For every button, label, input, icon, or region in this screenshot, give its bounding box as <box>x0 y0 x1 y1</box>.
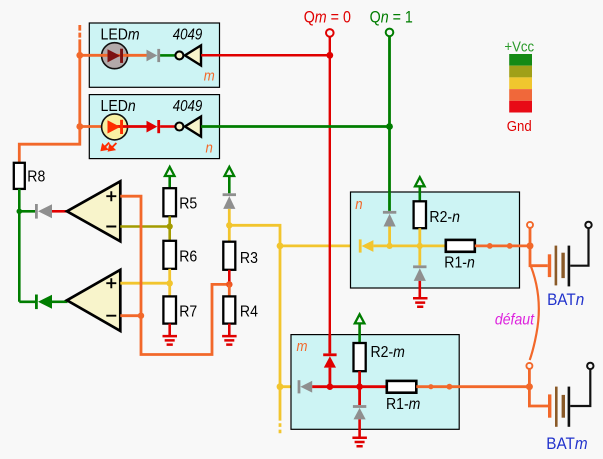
wire yellow op-amp U2 + input <box>120 282 169 285</box>
op-amp U2 <box>67 270 120 331</box>
diode D5 (red, row n) <box>147 120 161 133</box>
svg-text:BATn: BATn <box>547 290 584 309</box>
diode D9 (red, Qm to node m) <box>323 353 336 367</box>
node yellow junction trunk/m-row <box>277 383 284 390</box>
wire red D11 to ground <box>358 419 361 437</box>
node yellow junction trunk/n-row <box>277 243 284 250</box>
svg-text:R3: R3 <box>240 249 258 267</box>
inverter U3 4049 (row m) <box>175 45 201 65</box>
svg-text:R6: R6 <box>179 247 197 265</box>
wire orange LEDn row left <box>80 125 110 128</box>
wire yellow D6 to n row <box>388 227 391 246</box>
resistor R8 <box>14 163 45 189</box>
resistor R1-m <box>386 381 420 413</box>
wire red Qm into block m <box>328 334 331 353</box>
wire yellow D3 to R3 and trunk <box>229 209 280 246</box>
resistor R6 <box>163 241 197 269</box>
node orange junction battery m <box>526 383 533 390</box>
wire green diode to inverter m <box>160 54 175 57</box>
wire green Qn inside block n <box>388 192 391 211</box>
node orange junction battery n <box>527 242 534 249</box>
battery BATm <box>546 363 593 453</box>
wire olive R5-R6 <box>168 216 171 241</box>
ground under block n <box>413 298 428 307</box>
node junction orange <box>138 313 144 319</box>
box block m <box>291 335 459 430</box>
wire orange R4 top <box>228 284 231 296</box>
wire red D8 to ground <box>418 281 421 298</box>
box LED m (cell m indicator) <box>89 23 219 87</box>
op-amp U1 <box>67 181 120 241</box>
resistor R4 <box>223 296 258 323</box>
terminal open circle m <box>526 363 532 369</box>
wire yellow R6-R7 <box>168 269 171 297</box>
ground under R4 <box>222 336 237 345</box>
ground under block m <box>352 438 367 447</box>
wire défaut curve <box>530 267 539 361</box>
wire red R7 to ground <box>168 324 171 336</box>
diode D11 (gray, node m to ground) <box>353 405 366 419</box>
svg-text:n: n <box>355 195 362 212</box>
wire yellow node n row <box>373 244 445 247</box>
node yellow junction (D6) <box>387 243 393 249</box>
diode D3 (gray, above R3) <box>223 193 236 209</box>
svg-text:R1-n: R1-n <box>444 254 475 272</box>
node red junction (D9) <box>327 383 334 390</box>
svg-text:BATm: BATm <box>546 434 587 453</box>
wire yellow R2-n bottom <box>418 228 421 265</box>
svg-text:m: m <box>297 337 308 354</box>
power +Vcc arrow above R2-m <box>355 314 365 343</box>
node red junction (R2-m) <box>356 383 363 390</box>
wire red diode to inverter n <box>160 125 175 128</box>
node orange junction R3-R4 <box>226 281 233 288</box>
wire red R2-m bottom <box>358 371 361 405</box>
resistor R2-m <box>354 343 405 371</box>
LEDn emission arrows <box>102 143 117 151</box>
diode D4 (gray, row m) <box>147 49 161 62</box>
inverter U4 4049 (row n) <box>175 117 201 137</box>
resistor R7 <box>163 296 197 323</box>
svg-text:R8: R8 <box>27 167 45 185</box>
svg-text:R7: R7 <box>179 303 197 321</box>
power +Vcc arrow above R3 column <box>225 167 235 193</box>
wire green R8 bottom to diode nodes <box>19 189 35 302</box>
legend +Vcc/Gnd color scale <box>504 38 534 134</box>
pin dot <box>447 384 453 390</box>
diode D10 (gray, node m left) <box>298 380 313 393</box>
pin dot <box>487 243 493 249</box>
resistor R3 <box>223 242 258 270</box>
node yellow junction <box>167 280 173 286</box>
svg-text:R2-n: R2-n <box>429 208 460 226</box>
svg-text:R2-m: R2-m <box>371 343 405 361</box>
node olive junction <box>167 223 173 229</box>
LED LEDm <box>101 43 129 69</box>
svg-text:m: m <box>204 67 215 84</box>
power +Vcc arrow above R2-n <box>415 177 425 201</box>
wire orange R1-n to battery n <box>475 228 548 266</box>
node junction LEDm row <box>76 52 83 59</box>
svg-text:Qm = 0: Qm = 0 <box>304 9 351 27</box>
wire yellow trunk down to block m <box>279 246 282 433</box>
wire green inverter n output to Qn <box>201 125 389 128</box>
terminal Qn open circle <box>386 29 394 37</box>
svg-text:défaut: défaut <box>495 311 535 329</box>
wire red node m row <box>312 385 387 388</box>
wire red R3 bottom <box>228 270 231 285</box>
svg-text:LEDn: LEDn <box>101 97 136 115</box>
wire red D9 to m row <box>328 368 331 387</box>
svg-text:4049: 4049 <box>173 26 203 43</box>
terminal Qm open circle <box>326 29 334 37</box>
wire red inverter m output to Qm <box>201 54 330 57</box>
wire orange op-amp U2 - input <box>120 314 141 317</box>
wire yellow n-row to block n <box>280 244 359 247</box>
diode D1 (op-amp U1 output, gray) <box>35 204 68 219</box>
diode D7 (yellow, node n) <box>359 239 374 252</box>
wire orange op-amp U1 + input loop <box>120 196 228 354</box>
diode D2 (op-amp U2 output, green) <box>35 295 68 310</box>
LED LEDn <box>102 114 147 140</box>
svg-text:4049: 4049 <box>173 98 203 115</box>
node green junction Qn row <box>386 123 393 130</box>
svg-text:R1-m: R1-m <box>386 395 420 413</box>
wire red R4 to ground <box>228 324 231 336</box>
node green junction <box>17 209 23 215</box>
node yellow junction above R3 <box>226 222 232 228</box>
wire green Qn vertical <box>388 36 391 211</box>
pin dot <box>428 384 433 389</box>
wire orange R1-m to battery m <box>416 369 548 406</box>
node red junction Qm row <box>326 52 333 59</box>
diode D8 (gray, node n to ground) <box>413 265 426 281</box>
node junction LEDn row <box>76 123 83 130</box>
wire yellow m-row into block m <box>280 385 298 388</box>
terminal open circle n <box>527 222 533 228</box>
svg-text:R4: R4 <box>240 303 258 321</box>
svg-text:n: n <box>206 138 213 155</box>
power +Vcc arrow above R5 <box>165 167 175 188</box>
wire orange feed dashed continuation top <box>78 25 81 38</box>
svg-text:+Vcc: +Vcc <box>504 38 534 55</box>
node yellow junction (R2-n) <box>417 243 423 249</box>
box LED n (cell n indicator) <box>89 95 219 159</box>
battery BATn <box>547 222 592 310</box>
svg-text:R5: R5 <box>179 195 197 213</box>
pin dot <box>507 243 513 249</box>
ground under R7 <box>163 336 178 345</box>
diode D6 (gray, Qn to node n) <box>383 211 396 227</box>
wire red Qm vertical <box>329 37 331 354</box>
resistor R5 <box>163 188 197 216</box>
svg-text:Qn = 1: Qn = 1 <box>370 9 413 27</box>
resistor R2-n <box>414 201 460 228</box>
svg-text:Gnd: Gnd <box>507 117 532 134</box>
wire orange LEDm row <box>80 54 147 57</box>
box block n <box>351 192 520 288</box>
wire orange feed vertical to R8 <box>19 39 80 163</box>
svg-text:LEDm: LEDm <box>101 26 140 44</box>
wire olive op-amp U1 - input <box>120 225 169 228</box>
resistor R1-n <box>444 240 475 272</box>
